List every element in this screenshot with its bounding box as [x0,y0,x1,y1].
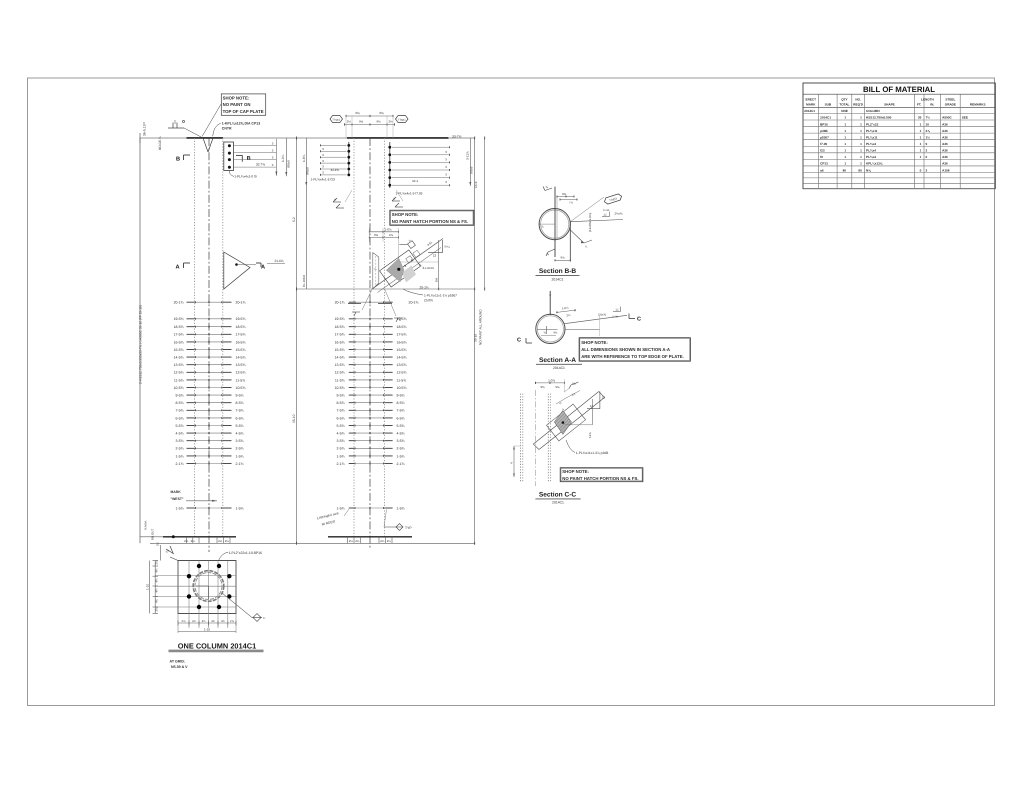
overall dim line 35-10 / 5-2 for near elevation [292,137,297,545]
svg-text:A36: A36 [942,149,948,153]
svg-text:12-5¾: 12-5¾ [397,371,407,375]
svg-text:18-5¾: 18-5¾ [174,325,184,329]
svg-text:ERECT: ERECT [806,97,817,101]
svg-text:SUB: SUB [825,103,832,107]
svg-text:BO.OUT: BO.OUT [151,529,155,540]
svg-text:1-5¾: 1-5¾ [397,506,405,510]
svg-text:a6: a6 [820,168,824,172]
svg-text:NO PAINT HATCH PORTION NS & FS: NO PAINT HATCH PORTION NS & FS. [562,476,638,481]
svg-text:2¼: 2¼ [191,539,196,543]
section C-C gusset leader p36B [566,440,609,455]
svg-text:7½: 7½ [926,116,931,120]
section B-B weld arrow mid right [570,230,592,249]
svg-text:11-5¾: 11-5¾ [174,378,184,382]
svg-text:4¾: 4¾ [155,568,159,573]
svg-text:4¾: 4¾ [155,598,159,603]
svg-text:9⅜: 9⅜ [355,111,360,115]
svg-text:12⅞: 12⅞ [588,432,592,438]
section C-C diagonal brace [533,392,604,450]
svg-text:A36: A36 [942,122,948,126]
section C-C left dim 4 [510,446,521,477]
svg-text:2-HSS12.750x0.500x35-7½ (-) A5: 2-HSS12.750x0.500x35-7½ (-) A500C 35-10 … [139,305,143,384]
svg-text:4-5¾: 4-5¾ [176,432,184,436]
svg-text:ONE COLUMN 2014C1: ONE COLUMN 2014C1 [178,641,256,650]
svg-text:REMARKS: REMARKS [970,103,986,107]
section B-B rotated plate size text [588,213,592,232]
svg-text:6-5¾: 6-5¾ [176,416,184,420]
svg-text:9-5¾: 9-5¾ [176,394,184,398]
base plan left dimension string [146,545,161,614]
svg-text:CNTR: CNTR [424,299,434,303]
svg-text:3-5¾: 3-5¾ [397,439,405,443]
svg-text:9⅜: 9⅜ [374,233,379,237]
svg-text:15-5¾: 15-5¾ [335,348,345,352]
svg-text:1-8⅞: 1-8⅞ [302,154,306,162]
svg-text:21-6⅝: 21-6⅝ [275,259,284,263]
svg-text:2-1¾: 2-1¾ [337,462,345,466]
svg-text:6-5¾: 6-5¾ [236,416,244,420]
rotated member label 2-HSS12.750x0.500x35-7 A500C [139,305,143,384]
rotated text BO.GE near top line [158,136,162,150]
svg-text:11-5¾: 11-5¾ [397,378,407,382]
svg-text:20-1¾: 20-1¾ [335,301,345,305]
section A-A slope flag and C right [598,307,641,323]
svg-text:N5.39 & V: N5.39 & V [171,665,188,669]
svg-text:80: 80 [843,168,847,172]
svg-text:FT.: FT. [917,103,921,107]
section A-A diagonal plate line [564,315,628,336]
svg-text:1: 1 [860,162,862,166]
svg-text:f7.09: f7.09 [820,142,827,146]
svg-text:3: 3 [926,168,928,172]
svg-text:5-5¾: 5-5¾ [176,424,184,428]
svg-text:2-5¾: 2-5¾ [337,447,345,451]
svg-text:3-11⅞: 3-11⅞ [466,151,470,160]
svg-text:1: 1 [844,116,846,120]
erection mark oval callout left [330,116,343,123]
svg-text:10-5¾: 10-5¾ [236,386,246,390]
svg-text:1-5¾: 1-5¾ [236,454,244,458]
svg-text:"WEST": "WEST" [171,497,184,501]
svg-text:2⅞: 2⅞ [182,619,187,623]
dim line 1-0 7/8 W6x9 right of near column [281,138,291,176]
svg-text:2½: 2½ [388,120,393,124]
svg-text:1-10: 1-10 [146,584,150,590]
svg-text:A108: A108 [942,168,950,172]
section B-B radius line and label [540,224,556,228]
section C-C slope triangle 15 12 [587,392,606,409]
svg-text:T-bgs1: T-bgs1 [398,118,406,121]
svg-text:A36: A36 [942,162,948,166]
svg-text:T-bgs1: T-bgs1 [332,118,340,121]
svg-text:B: B [176,156,180,162]
svg-text:2¼: 2¼ [387,539,392,543]
svg-text:2¼: 2¼ [218,539,223,543]
svg-text:A500C: A500C [942,116,952,120]
svg-text:1-PL¾x4x1-3 f23: 1-PL¾x4x1-3 f23 [311,178,336,182]
svg-text:1: 1 [860,122,862,126]
svg-text:1: 1 [920,155,922,159]
svg-text:2⅞x⅜: 2⅞x⅜ [598,313,606,317]
svg-text:1-PL¾x4x1-0 f9: 1-PL¾x4x1-0 f9 [234,175,257,179]
svg-text:6-5¾: 6-5¾ [337,416,345,420]
svg-text:1: 1 [844,149,846,153]
svg-text:2⅞: 2⅞ [155,560,159,565]
svg-text:5-5¾: 5-5¾ [337,424,345,428]
TYP weld symbol at far base [384,510,412,531]
svg-text:14-5¾: 14-5¾ [174,356,184,360]
svg-text:REQ'D: REQ'D [853,103,863,107]
svg-text:9⅜: 9⅜ [562,192,567,196]
svg-text:p5367: p5367 [820,135,829,139]
svg-text:1: 1 [860,142,862,146]
seal plate note 1-KPL 3/8 x 0-3 seal 80 REQD [316,509,349,526]
svg-text:4¾: 4¾ [202,619,207,623]
svg-text:2-1¾: 2-1¾ [176,462,184,466]
svg-text:7½: 7½ [569,201,574,205]
svg-text:8-5¾: 8-5¾ [236,401,244,405]
svg-text:1-0⅞: 1-0⅞ [385,227,392,231]
svg-text:1: 1 [844,155,846,159]
section mark B right with arrow [236,155,251,161]
near elevation rung rows with elevation labels [174,301,246,511]
svg-text:N⅝: N⅝ [866,168,871,172]
svg-text:9-5¾: 9-5¾ [337,394,345,398]
svg-text:7-5¾: 7-5¾ [176,409,184,413]
svg-text:SHOP NOTE:: SHOP NOTE: [392,212,419,217]
svg-text:8-5¾: 8-5¾ [397,401,405,405]
column 2014C1 near side body lines [195,138,223,552]
svg-text:3: 3 [926,149,928,153]
svg-text:11-5¾: 11-5¾ [236,378,246,382]
svg-text:8-5¾: 8-5¾ [176,401,184,405]
svg-text:ARE WITH REFERENCE TO TOP EDGE: ARE WITH REFERENCE TO TOP EDGE OF PLATE. [581,354,684,359]
svg-text:A36: A36 [942,142,948,146]
svg-text:7-5¾: 7-5¾ [337,409,345,413]
svg-text:f23: f23 [820,149,825,153]
svg-text:W6x9: W6x9 [306,167,310,175]
svg-text:4¾: 4¾ [155,588,159,593]
svg-text:9⅜: 9⅜ [540,385,545,389]
svg-text:Section B-B: Section B-B [539,268,577,275]
svg-text:2¼: 2¼ [225,539,230,543]
svg-text:ALL DIMENSIONS SHOWN IN SECTIO: ALL DIMENSIONS SHOWN IN SECTION A-A [581,347,670,352]
base plan bottom dimension string [178,561,236,634]
svg-text:35-10: 35-10 [474,334,478,342]
section C-C column body [520,390,550,486]
svg-text:2¼: 2¼ [349,539,354,543]
svg-text:20-1¾: 20-1¾ [236,301,246,305]
MARK WEST stamp text [171,490,218,502]
svg-text:ONE: ONE [841,109,848,113]
svg-text:36-5.13¹⁶: 36-5.13¹⁶ [143,121,147,136]
svg-text:19-5¾: 19-5¾ [236,317,246,321]
svg-text:5-2: 5-2 [292,217,296,222]
sheet border frame [28,78,995,706]
svg-text:2014C1: 2014C1 [804,109,815,113]
svg-text:1-0⅞: 1-0⅞ [281,154,285,162]
detail title ONE COLUMN 2014C1 [169,641,264,651]
svg-text:2014C1: 2014C1 [552,501,564,505]
svg-text:2¾x⅜: 2¾x⅜ [615,212,623,216]
svg-text:Section C-C: Section C-C [539,491,577,498]
small weld flags below work point [352,312,402,322]
svg-text:MARK: MARK [171,490,182,494]
section C-C gusset plate with hatch [546,404,585,441]
svg-text:1-PL2"x22x1-10 BP16: 1-PL2"x22x1-10 BP16 [229,551,263,555]
section A-A title [536,357,582,370]
column elevation near side - top cap line [140,137,475,139]
svg-text:PL¾x4: PL¾x4 [866,142,876,146]
section B-B top dims 9 3/8 [557,192,577,205]
svg-text:5-5¾: 5-5¾ [236,424,244,428]
section C-C small dims near top [556,391,580,412]
svg-text:W6x9: W6x9 [286,160,290,168]
svg-text:1-5¾: 1-5¾ [176,454,184,458]
svg-text:A36: A36 [942,135,948,139]
svg-text:NO PAINT HATCH PORTION NS & FS: NO PAINT HATCH PORTION NS & FS. [392,219,468,224]
svg-text:13-5¾: 13-5¾ [397,363,407,367]
svg-text:2¼: 2¼ [156,541,160,546]
svg-text:W6x9: W6x9 [469,166,473,174]
section mark A right with leader 21-6 5/8 [256,259,285,270]
svg-text:SHOP NOTE:: SHOP NOTE: [581,340,608,345]
svg-text:19-5¾: 19-5¾ [397,317,407,321]
svg-text:1: 1 [860,116,862,120]
svg-text:GRADE: GRADE [945,103,956,107]
section mark B left [176,155,190,162]
full height right dim 15-6 and 35-10 no paint all around [474,137,483,545]
svg-text:1½: 1½ [926,135,931,139]
shop note box: dimensions reference top edge of plate [579,338,690,362]
svg-text:4-5¾: 4-5¾ [397,432,405,436]
gusset plate side view triangle at section A [224,252,256,289]
work point leaders below EL line [348,289,457,316]
rotated dim text 36-5 13/16 left of line [143,121,147,136]
section B-B horizontal leader with slope flag [570,209,623,222]
svg-text:1: 1 [860,149,862,153]
svg-text:SHOP NOTE:: SHOP NOTE: [562,469,589,474]
svg-text:2014C1: 2014C1 [552,277,564,281]
svg-text:TOP OF CAP PLATE: TOP OF CAP PLATE [223,109,264,114]
svg-text:1: 1 [844,142,846,146]
svg-text:BP16: BP16 [820,122,828,126]
svg-text:4¾: 4¾ [155,578,159,583]
svg-text:1: 1 [860,129,862,133]
section B-B tangent plate line right [569,222,571,262]
svg-text:p36B: p36B [820,129,828,133]
svg-text:10-5¾: 10-5¾ [174,386,184,390]
svg-text:3-5¾: 3-5¾ [236,439,244,443]
svg-text:NO PAINT ON: NO PAINT ON [223,102,251,107]
svg-text:2⅞: 2⅞ [155,607,159,612]
svg-text:SHAPE: SHAPE [884,103,895,107]
far column body lines [354,138,385,548]
section A-A cut mark C left [517,338,532,344]
svg-text:12-5¾: 12-5¾ [335,371,345,375]
svg-text:MARK: MARK [806,103,816,107]
section B-B column circle [539,209,570,240]
svg-text:HSS12.750x0.500: HSS12.750x0.500 [866,116,892,120]
svg-text:1: 1 [844,162,846,166]
svg-text:2⅞: 2⅞ [230,619,235,623]
top bolt gauge dimension lines above far cap [345,111,395,138]
svg-text:9⅜: 9⅜ [359,120,364,124]
svg-text:TOTAL: TOTAL [839,103,849,107]
svg-text:SHOP NOTE:: SHOP NOTE: [223,95,250,100]
svg-text:13-5¾: 13-5¾ [236,363,246,367]
svg-text:15: 15 [602,396,606,400]
svg-text:19-5¾: 19-5¾ [335,317,345,321]
svg-text:2½: 2½ [347,120,352,124]
section mark A left [176,263,191,270]
svg-text:SEE: SEE [962,116,968,120]
svg-text:C: C [517,338,521,344]
svg-text:1-KPL¼x12⅝ DIA CP13: 1-KPL¼x12⅝ DIA CP13 [222,121,260,125]
bent plate side profile left of far column [373,253,379,289]
svg-text:A: A [176,264,180,270]
section A-A plate stub above [549,291,551,315]
section C-C title [535,491,580,504]
svg-text:NO PAINT ALL AROUND: NO PAINT ALL AROUND [478,309,482,345]
svg-text:A36: A36 [942,155,948,159]
svg-text:11.3A: 11.3A [603,209,610,212]
svg-text:13-5¾: 13-5¾ [335,363,345,367]
weld flag above gusset [399,239,415,249]
svg-text:IN.: IN. [930,103,934,107]
near elevation base plate edge [140,535,236,543]
svg-text:18-5¾: 18-5¾ [236,325,246,329]
base plate BP16 plan square [155,561,236,629]
svg-text:12-5¾: 12-5¾ [174,371,184,375]
base level dimension line across sheet [150,542,475,544]
svg-text:0: 0 [920,168,922,172]
section A-A dims 1-0 7/8 and 2 1/4 [556,306,576,318]
svg-text:1-5¾: 1-5¾ [337,454,345,458]
svg-text:4-5¾: 4-5¾ [337,432,345,436]
bill of material table [803,83,995,189]
diagonal brace line with slope triangle [372,239,450,293]
svg-text:AT GRID:: AT GRID: [170,660,186,664]
svg-text:11-5¾: 11-5¾ [335,378,345,382]
svg-text:19-5¾: 19-5¾ [174,317,184,321]
svg-text:35: 35 [918,116,922,120]
EL 100-0 working line across [297,274,475,289]
svg-text:1-5¾: 1-5¾ [236,506,244,510]
svg-text:2¼: 2¼ [355,539,360,543]
svg-text:14-5¾: 14-5¾ [236,356,246,360]
svg-text:2-L4x4¼: 2-L4x4¼ [423,266,435,270]
svg-text:Section A-A: Section A-A [539,357,576,364]
section B-B bottom flag 3/8 [546,249,555,256]
svg-text:C: C [637,316,641,322]
svg-text:7-5¾: 7-5¾ [236,409,244,413]
svg-text:8⅝: 8⅝ [434,277,438,282]
erection mark oval callout right [396,116,409,123]
base left rotated small dims [144,520,160,546]
weld V notch below cap [203,138,213,152]
svg-text:15-5¾: 15-5¾ [174,348,184,352]
svg-text:18-5¾: 18-5¾ [335,325,345,329]
svg-text:20-1¾: 20-1¾ [420,285,429,289]
svg-text:8-5¾: 8-5¾ [337,401,345,405]
svg-text:PL¾x11: PL¾x11 [866,129,878,133]
section A-A column circle [536,314,565,343]
right dim extension line [484,137,486,291]
svg-text:CP13: CP13 [820,162,828,166]
svg-text:0: 0 [926,155,928,159]
svg-text:1-5¾: 1-5¾ [337,506,345,510]
svg-text:12-5¾: 12-5¾ [236,371,246,375]
svg-text:1-5¾: 1-5¾ [176,506,184,510]
svg-text:9⅜: 9⅜ [555,385,560,389]
svg-text:33-7½: 33-7½ [452,134,462,138]
svg-text:12: 12 [433,254,437,258]
svg-text:1-0⅞: 1-0⅞ [548,378,555,382]
svg-text:KPL¼x12⅝: KPL¼x12⅝ [866,162,883,166]
svg-text:13-5¾: 13-5¾ [174,363,184,367]
svg-text:1: 1 [920,135,922,139]
svg-text:EL.100-0: EL.100-0 [302,274,306,287]
svg-text:16-5¾: 16-5¾ [397,340,407,344]
shop note box: no paint on top of cap plate [202,94,266,136]
svg-text:17-5¾: 17-5¾ [174,333,184,337]
svg-text:CNTR: CNTR [222,127,232,131]
svg-text:NO.: NO. [855,97,861,101]
svg-text:1-5¾: 1-5¾ [397,454,405,458]
svg-text:1-PL¾x4x1-9 f7.09: 1-PL¾x4x1-9 f7.09 [396,191,423,195]
left extension line of near elevation [139,133,141,543]
svg-text:16-5¾: 16-5¾ [174,340,184,344]
weld symbol at cap top left [168,120,203,138]
cap plate callout 1-KPL 1/4 x 12 5/8 DIA CP13 CNTR [213,121,261,136]
svg-text:7-5¾: 7-5¾ [397,409,405,413]
far elevation base plate edge [328,537,412,544]
svg-text:PL2"x22: PL2"x22 [866,122,879,126]
svg-text:BILL OF MATERIAL: BILL OF MATERIAL [863,85,935,94]
svg-text:4¾: 4¾ [221,619,226,623]
svg-text:4¾: 4¾ [192,619,197,623]
svg-text:PL¾x4: PL¾x4 [866,149,876,153]
svg-text:35-10: 35-10 [292,414,296,423]
svg-text:9⅞: 9⅞ [389,233,394,237]
svg-text:2014C1: 2014C1 [553,366,565,370]
anchor bolt leader with weld symbol [222,593,266,622]
svg-text:20-1¾: 20-1¾ [409,301,419,305]
svg-text:14-5¾: 14-5¾ [335,356,345,360]
svg-text:1-PL¾x11x1-3⅞ p36B: 1-PL¾x11x1-3⅞ p36B [576,451,609,455]
anchor bolt holes 8x [187,564,232,609]
svg-text:2¼: 2¼ [184,539,189,543]
svg-text:1: 1 [860,155,862,159]
svg-text:2¼: 2¼ [380,539,385,543]
right dim line 3-11 7/8 W6x9 [466,138,474,186]
svg-text:32.7⅜: 32.7⅜ [256,162,265,166]
section C-C top dim 1-0 7/8 over 9 3/8 9 3/8 [535,378,564,392]
svg-text:2-1¾: 2-1¾ [236,462,244,466]
far elevation rung rows [335,301,419,511]
svg-text:9: 9 [926,142,928,146]
svg-text:2-5¾: 2-5¾ [236,447,244,451]
svg-text:9⅝: 9⅝ [560,256,565,260]
svg-text:A36: A36 [942,129,948,133]
shop note box: no paint hatch portion NS FS (section C-C) [560,468,643,482]
grid location note AT GRID N5.39 and V [170,660,189,669]
brace work point dims above gusset [369,227,398,269]
svg-text:6-5¾: 6-5¾ [397,416,405,420]
svg-text:1: 1 [844,135,846,139]
svg-text:15-5¾: 15-5¾ [397,348,407,352]
